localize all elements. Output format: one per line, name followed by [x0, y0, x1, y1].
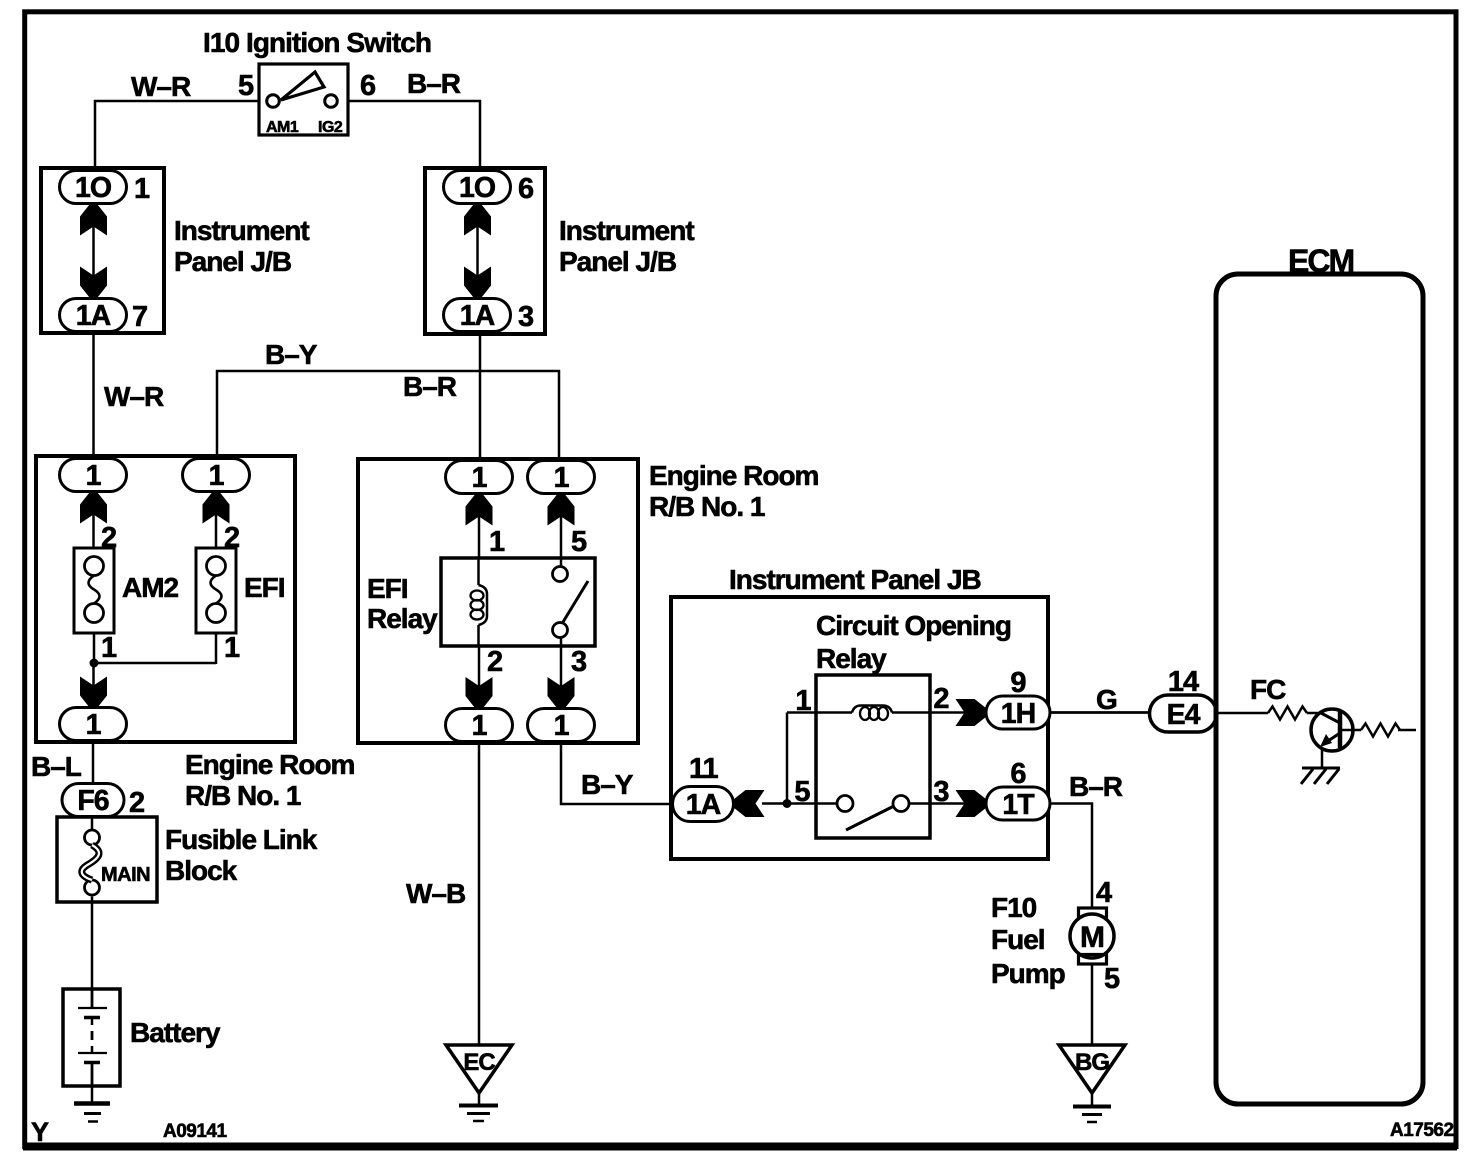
svg-text:E4: E4	[1167, 699, 1201, 731]
svg-text:1A: 1A	[460, 300, 495, 332]
wire AM2 fuse to junction	[93, 633, 96, 664]
arrow down (left J/B)	[80, 267, 107, 298]
svg-text:1: 1	[472, 462, 488, 494]
svg-text:11: 11	[689, 753, 719, 785]
arrow down (to connector 1 bottom)	[80, 677, 107, 708]
arrow up (EFI relay pin 5)	[548, 495, 575, 526]
arrow up (right J/B)	[464, 205, 491, 236]
svg-text:B–Y: B–Y	[265, 339, 318, 370]
svg-text:F10: F10	[991, 892, 1037, 923]
wire transistor collector	[1341, 729, 1361, 732]
svg-text:A09141: A09141	[163, 1121, 227, 1142]
EFI relay box	[441, 558, 595, 646]
fuel pump motor M (F10)	[1070, 908, 1114, 964]
svg-text:EFI: EFI	[367, 573, 408, 604]
chassis ground (transistor emitter)	[1301, 768, 1340, 784]
svg-text:G: G	[1096, 684, 1117, 715]
connector 1A (right J/B)	[444, 299, 511, 332]
svg-text:1: 1	[224, 632, 240, 664]
resistor FC	[1268, 707, 1307, 720]
connector 1A (left J/B)	[60, 299, 127, 332]
EFI relay switch	[553, 558, 589, 646]
junction dot	[90, 659, 99, 668]
wire resistor to ECM internal	[1398, 729, 1416, 732]
svg-text:W–R: W–R	[104, 381, 164, 412]
svg-text:1: 1	[489, 526, 505, 558]
svg-text:EFI: EFI	[244, 572, 285, 603]
svg-text:2: 2	[129, 787, 144, 819]
svg-text:Instrument Panel JB: Instrument Panel JB	[729, 564, 981, 595]
svg-text:1: 1	[101, 632, 117, 664]
svg-text:B–R: B–R	[1069, 771, 1123, 802]
fusible link MAIN	[82, 817, 150, 895]
connector 1 (top of EFI fuse)	[183, 459, 250, 492]
svg-text:3: 3	[518, 301, 534, 333]
connector 1H	[986, 696, 1050, 729]
circuit opening relay box	[816, 675, 930, 838]
arrow down (right J/B)	[464, 267, 491, 298]
ignition switch I10	[259, 64, 348, 136]
wire B-R from 1T to fuel pump	[1050, 804, 1092, 910]
connector 1A (Instrument Panel JB)	[673, 787, 734, 822]
svg-text:F6: F6	[77, 785, 108, 817]
junction dot (pin 5 node)	[783, 799, 792, 808]
svg-text:Panel J/B: Panel J/B	[559, 246, 676, 277]
svg-text:B–L: B–L	[31, 751, 82, 782]
connector E4	[1150, 695, 1217, 732]
svg-text:5: 5	[1104, 963, 1120, 995]
wire junction to relay coil pin 1	[786, 713, 789, 804]
wire W-R from left J/B to Engine Room R/B No.1	[92, 333, 95, 459]
ground BG	[1059, 1045, 1125, 1122]
relay block: Engine Room R/B No.1 (left, fuses AM2 and EFI)	[36, 456, 295, 742]
fusible link block	[57, 817, 157, 902]
svg-text:Instrument: Instrument	[559, 215, 694, 246]
svg-text:1: 1	[86, 460, 102, 492]
svg-text:Circuit Opening: Circuit Opening	[816, 610, 1011, 641]
arrow up (left J/B)	[80, 205, 107, 236]
svg-text:B–R: B–R	[403, 371, 457, 402]
svg-text:FC: FC	[1250, 674, 1286, 705]
wire EFI relay pin 3	[560, 646, 563, 687]
svg-text:IG2: IG2	[318, 119, 343, 136]
wire EFI relay pin 2	[478, 646, 481, 687]
svg-text:AM1: AM1	[266, 119, 299, 136]
svg-text:A17562: A17562	[1390, 1120, 1454, 1141]
svg-text:5: 5	[238, 70, 254, 102]
svg-text:Y: Y	[31, 1117, 49, 1147]
svg-text:1: 1	[554, 710, 570, 742]
wire inside right J/B	[476, 226, 479, 277]
resistor (collector pull-up)	[1361, 724, 1400, 737]
wire B-Y from EFI relay to Instrument Panel JB connector 1A	[561, 742, 672, 805]
svg-text:2: 2	[933, 683, 948, 715]
svg-text:4: 4	[1096, 877, 1112, 909]
svg-text:14: 14	[1168, 666, 1199, 698]
svg-text:Engine Room: Engine Room	[649, 460, 819, 491]
wire 1A to junction and relay pin 5	[762, 802, 837, 805]
svg-text:W–B: W–B	[406, 878, 465, 909]
connector 1O (right J/B)	[444, 171, 511, 204]
connector 1T	[986, 787, 1050, 820]
svg-text:6: 6	[518, 173, 534, 205]
svg-text:1H: 1H	[1001, 698, 1035, 730]
wire W-R from ignition switch pin 5 to Instrument Panel J/B connector 1O	[95, 101, 259, 171]
circuit opening relay coil	[787, 706, 986, 721]
connector 1 (EFI relay pin 5 top)	[528, 461, 595, 494]
wire EFI fuse down	[215, 633, 218, 664]
svg-text:Instrument: Instrument	[174, 215, 309, 246]
arrow right (to connector 1T)	[956, 790, 987, 817]
svg-text:7: 7	[132, 301, 147, 333]
svg-text:3: 3	[571, 646, 587, 678]
svg-text:1: 1	[86, 709, 102, 741]
junction block: left Instrument Panel J/B	[41, 168, 164, 333]
wire G from 1H to ECM connector E4	[1050, 711, 1150, 714]
svg-text:1O: 1O	[75, 172, 111, 204]
wire E4 to resistor FC	[1217, 712, 1269, 715]
wire to EFI relay pin 5	[560, 516, 563, 559]
wire to AM2 fuse pin 2	[92, 514, 95, 549]
arrow up (AM2 branch)	[80, 493, 107, 524]
svg-text:Pump: Pump	[991, 958, 1065, 989]
svg-text:Block: Block	[165, 855, 238, 886]
svg-text:AM2: AM2	[122, 572, 179, 603]
arrow down (EFI relay pin 2)	[466, 677, 493, 708]
svg-text:6: 6	[360, 70, 376, 102]
wire B-Y jumper from EFI fuse to EFI relay pin 5	[217, 371, 559, 461]
svg-text:MAIN: MAIN	[101, 864, 150, 886]
svg-text:BG: BG	[1075, 1049, 1109, 1076]
svg-text:1A: 1A	[76, 300, 111, 332]
svg-text:Engine Room: Engine Room	[185, 749, 355, 780]
svg-text:1T: 1T	[1002, 789, 1035, 821]
wire to EFI fuse pin 2	[215, 514, 218, 549]
battery	[63, 989, 120, 1086]
svg-text:R/B No. 1: R/B No. 1	[649, 491, 765, 522]
svg-text:5: 5	[571, 526, 587, 558]
wire B-L from R/B to fusible link block connector F6	[92, 741, 95, 785]
connector 1O (left J/B)	[60, 171, 127, 204]
svg-text:ECM: ECM	[1288, 243, 1353, 279]
arrow up (EFI branch)	[203, 493, 230, 524]
fuse EFI	[196, 548, 236, 633]
svg-text:B–Y: B–Y	[581, 769, 634, 800]
svg-text:1O: 1O	[459, 172, 495, 204]
wire fuel pump to ground BG	[1091, 964, 1094, 1046]
svg-text:1A: 1A	[686, 789, 721, 821]
svg-text:1: 1	[472, 710, 488, 742]
svg-text:EC: EC	[463, 1049, 495, 1076]
EFI relay coil	[471, 558, 488, 646]
connector 1 (top of AM2 fuse)	[60, 459, 127, 492]
transistor (ECM output, FC driver)	[1311, 709, 1353, 768]
junction block: right Instrument Panel J/B	[425, 168, 545, 334]
wire B-R from right J/B to Engine Room R/B No.1 EFI relay pin 1	[479, 334, 482, 461]
ground EC	[446, 1045, 512, 1121]
wire W-B from EFI relay to ground EC	[478, 742, 481, 1047]
fuse AM2	[74, 548, 114, 633]
svg-text:6: 6	[1010, 758, 1026, 790]
svg-text:B–R: B–R	[407, 68, 461, 99]
wire junction to bottom connector	[92, 663, 95, 687]
svg-text:Relay: Relay	[367, 603, 438, 634]
wire to EFI relay pin 1	[478, 516, 481, 559]
circuit opening relay switch	[837, 796, 986, 831]
connector 1 (EFI relay pin 1 top)	[446, 461, 513, 494]
connector 1 (bottom left of EFI relay R/B)	[446, 709, 513, 742]
svg-text:M: M	[1080, 921, 1104, 954]
svg-text:R/B No. 1: R/B No. 1	[185, 780, 301, 811]
wire resistor to transistor base	[1307, 712, 1320, 715]
connector F6	[62, 784, 124, 817]
wire B-R from ignition switch pin 6 to right Instrument Panel J/B connector 1O	[348, 101, 480, 171]
wire battery to ground	[91, 1086, 94, 1103]
arrow left (to connector 1A)	[734, 790, 765, 817]
arrow up (EFI relay pin 1)	[466, 495, 493, 526]
wire link fuses	[94, 662, 216, 665]
svg-text:1: 1	[134, 173, 150, 205]
wire fusible link block to battery	[91, 897, 94, 991]
svg-text:1: 1	[209, 460, 225, 492]
svg-text:2: 2	[487, 646, 502, 678]
svg-text:1: 1	[554, 462, 570, 494]
svg-text:Relay: Relay	[816, 643, 887, 674]
ECM box	[1216, 274, 1423, 1104]
arrow right (to connector 1H)	[956, 699, 987, 726]
svg-text:W–R: W–R	[131, 71, 191, 102]
svg-text:Fuel: Fuel	[991, 924, 1045, 955]
relay block: Engine Room R/B No.1 (right, EFI relay)	[358, 459, 638, 743]
svg-text:9: 9	[1010, 667, 1026, 699]
arrow down (EFI relay pin 3)	[548, 677, 575, 708]
svg-text:5: 5	[794, 776, 810, 808]
svg-text:Fusible Link: Fusible Link	[165, 824, 318, 855]
wire inside left J/B	[92, 226, 95, 277]
connector 1 (bottom of left R/B)	[60, 708, 127, 741]
ground (battery)	[74, 1104, 110, 1122]
svg-text:Panel J/B: Panel J/B	[174, 246, 291, 277]
junction block: Instrument Panel JB	[671, 597, 1048, 859]
svg-text:Battery: Battery	[130, 1017, 221, 1048]
connector 1 (bottom right of EFI relay R/B)	[528, 709, 595, 742]
svg-text:I10 Ignition Switch: I10 Ignition Switch	[203, 27, 431, 58]
